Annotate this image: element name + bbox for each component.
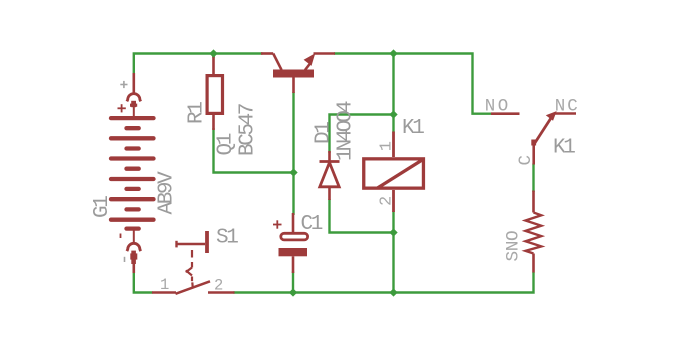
emitter slant <box>305 64 310 71</box>
switch S1 <box>152 231 235 294</box>
junction node relay ground <box>389 288 397 296</box>
wire bottom rail (S1 pin2 to SN0 corner) <box>234 272 534 293</box>
C1 plus sign <box>273 220 282 228</box>
wire base vertical <box>292 92 294 215</box>
pin + lead <box>133 73 136 93</box>
relay coil K1 <box>364 132 424 213</box>
junction node D1 top <box>389 110 397 118</box>
spring dot <box>185 270 188 273</box>
junction node base <box>289 168 297 176</box>
contact C lead <box>532 145 535 165</box>
actuator bar <box>205 231 209 253</box>
svg-text:C1: C1 <box>301 213 323 236</box>
battery G1 <box>127 73 141 273</box>
wire D1 bottom branch <box>330 199 394 233</box>
pin 2 lead <box>208 291 235 294</box>
svg-text:K1: K1 <box>402 117 424 140</box>
battery plus sign red <box>118 104 126 112</box>
wire relay pin2 to ground rail <box>392 211 394 293</box>
emitter arrow <box>304 53 316 66</box>
junction node top relay <box>389 49 397 57</box>
battery minus sign gray (rotated) <box>124 257 126 262</box>
pin 1 lead <box>152 291 176 294</box>
svg-text:2: 2 <box>214 277 223 295</box>
svg-text:G1: G1 <box>91 196 114 218</box>
battery plus sign gray <box>120 81 127 88</box>
base bar <box>273 70 314 78</box>
resistor SN0 zigzag <box>526 191 542 273</box>
pin - lead <box>133 263 136 273</box>
battery plates <box>111 118 154 229</box>
wire D1 top branch <box>330 115 394 154</box>
spring dashes <box>191 250 193 258</box>
resistor R1 <box>207 55 222 130</box>
plunger line <box>177 243 206 245</box>
junction node top R1 <box>209 49 217 57</box>
wire contact C to resistor <box>532 164 534 193</box>
- clip arc <box>127 243 141 251</box>
battery + button top <box>130 101 137 264</box>
svg-text:BC547: BC547 <box>237 104 260 156</box>
svg-text:2: 2 <box>378 196 397 206</box>
wire top rail right (emitter to NO corner) <box>334 54 492 114</box>
capacitor C1 <box>279 213 308 273</box>
wire relay column <box>392 54 394 133</box>
svg-text:Q1: Q1 <box>215 133 238 155</box>
svg-text:NO: NO <box>485 97 511 117</box>
NC pin <box>555 112 577 115</box>
svg-text:R1: R1 <box>186 102 209 124</box>
collector wire <box>261 52 273 55</box>
svg-text:K1: K1 <box>553 137 575 160</box>
svg-text:C: C <box>516 155 536 166</box>
svg-text:S1: S1 <box>216 227 238 250</box>
lever <box>176 281 211 294</box>
plunger end tick <box>175 241 177 248</box>
wire R1 top to rail <box>212 54 214 59</box>
svg-text:1: 1 <box>378 141 397 151</box>
junction node C1 ground <box>289 288 297 296</box>
base lead <box>292 78 295 94</box>
battery minus sign red (rotated) <box>120 234 122 239</box>
svg-text:SNO: SNO <box>504 231 524 262</box>
svg-text:1: 1 <box>160 276 169 294</box>
diode D1 <box>320 151 340 200</box>
svg-text:1N4OO4: 1N4OO4 <box>335 101 358 161</box>
wire R1 bottom to base node <box>214 128 294 173</box>
relay contact arm K1 <box>531 112 556 165</box>
NO pin <box>491 112 520 115</box>
+ clip arc <box>127 94 141 102</box>
collector slant <box>273 54 281 70</box>
emitter wire <box>314 52 336 55</box>
svg-text:D1: D1 <box>313 122 336 144</box>
svg-text:NC: NC <box>555 97 580 117</box>
transistor Q1 <box>261 53 335 93</box>
svg-text:AB9V: AB9V <box>156 171 179 215</box>
wire battery- to bottom rail <box>134 272 153 293</box>
battery - button bottom <box>131 251 136 264</box>
wire top rail left (battery+ to transistor collector) <box>134 54 263 92</box>
wire C1 bottom to ground rail <box>292 272 294 293</box>
junction node D1 bottom <box>389 228 397 236</box>
